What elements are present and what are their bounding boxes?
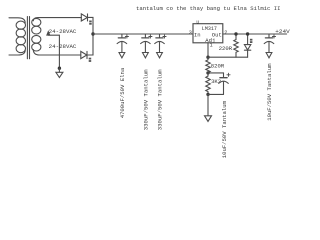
- plus mark C3: [163, 35, 166, 38]
- svg-text:4700uF/50V Elna: 4700uF/50V Elna: [119, 67, 126, 118]
- diode D3 protection: [244, 34, 250, 57]
- svg-text:1: 1: [210, 42, 213, 48]
- label D3: [250, 39, 253, 43]
- svg-text:220R: 220R: [219, 45, 233, 52]
- svg-text:24-28VAC: 24-28VAC: [49, 28, 77, 35]
- ground (C3): [157, 53, 163, 58]
- diode D1 top rectifier: [81, 14, 87, 21]
- wire D1 cathode to junction: [88, 17, 94, 34]
- wire LM317 output bus: [223, 33, 287, 35]
- wire main bus to LM317 input: [93, 33, 193, 35]
- capacitor C2 330uF Tantalum: [141, 34, 151, 52]
- resistor R2 820R: [206, 57, 210, 73]
- svg-text:tantalum co the thay bang tu E: tantalum co the thay bang tu Elna Silmic…: [136, 5, 281, 12]
- capacitor C3 330uF Tantalum: [155, 34, 165, 52]
- svg-text:820R: 820R: [211, 63, 225, 70]
- ground (C1): [119, 53, 125, 58]
- wire C4 bottom return: [208, 93, 224, 95]
- wire center tap: [48, 35, 59, 68]
- svg-text:+24V: +24V: [275, 28, 290, 35]
- node divider bottom junction: [206, 93, 209, 96]
- node rectifier output junction: [91, 32, 94, 35]
- diode D2 bottom rectifier: [81, 51, 87, 58]
- wire to C4: [208, 73, 224, 77]
- wire to ground: [58, 68, 60, 72]
- node R1 top: [234, 32, 237, 35]
- ground (divider): [205, 116, 212, 122]
- plus mark C2: [149, 35, 152, 38]
- node center tap ground junction: [58, 67, 61, 70]
- svg-text:3K3: 3K3: [211, 78, 221, 85]
- svg-text:10uF/50V Tantalum: 10uF/50V Tantalum: [266, 63, 273, 121]
- node D3 top: [246, 32, 249, 35]
- capacitor C5 10uF output: [264, 34, 274, 52]
- transformer T1 core: [27, 17, 29, 59]
- svg-text:3: 3: [189, 30, 192, 36]
- capacitor C1 4700uF Elna: [117, 34, 127, 52]
- resistor R1 220R: [234, 34, 238, 57]
- svg-text:U: U: [196, 19, 199, 25]
- wire adj node line: [208, 56, 248, 58]
- ground (C5): [266, 53, 272, 58]
- svg-text:2: 2: [224, 30, 227, 36]
- op-amp U1 LM317 box: [193, 24, 223, 43]
- wire LM317 adj lead: [207, 43, 209, 57]
- plus mark C5: [272, 35, 275, 38]
- node adj junction: [206, 56, 209, 59]
- transformer T1 primary winding: [9, 18, 25, 55]
- ground (center tap): [56, 72, 63, 77]
- plus mark C4: [227, 73, 230, 76]
- transformer T1 secondary winding: [32, 18, 41, 55]
- wire secondary top lead: [38, 17, 81, 19]
- svg-text:330uF/50V Tantalum: 330uF/50V Tantalum: [157, 69, 164, 130]
- plus mark C1: [125, 35, 128, 38]
- wire D2 cathode to junction: [87, 34, 93, 55]
- capacitor C4 10uF adj: [219, 78, 229, 95]
- svg-text:In: In: [194, 32, 201, 39]
- svg-text:10uF/50V Tantalum: 10uF/50V Tantalum: [221, 100, 228, 158]
- label D2: [89, 58, 92, 62]
- wire to ground (divider): [207, 94, 209, 115]
- svg-text:330uF/50V Tantalum: 330uF/50V Tantalum: [143, 69, 150, 130]
- node R2/R3 junction: [206, 71, 209, 74]
- wire secondary bottom lead: [40, 54, 81, 56]
- svg-text:24-28VAC: 24-28VAC: [49, 43, 77, 50]
- label D1: [89, 21, 92, 25]
- resistor R3 3K3: [206, 73, 210, 95]
- center tap arrow: [47, 32, 50, 35]
- ground (C2): [143, 53, 149, 58]
